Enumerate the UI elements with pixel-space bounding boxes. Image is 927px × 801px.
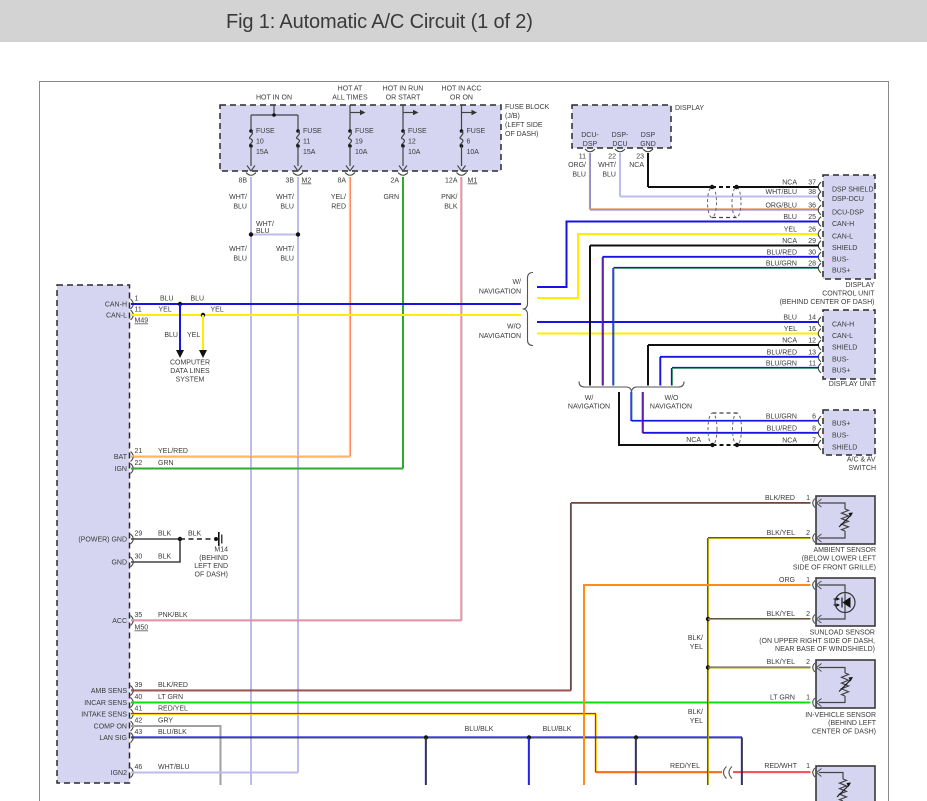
svg-text:NCA: NCA (782, 438, 797, 445)
svg-text:11: 11 (135, 307, 142, 314)
svg-text:8A: 8A (337, 178, 346, 185)
svg-text:HOT AT: HOT AT (338, 86, 363, 93)
svg-text:30: 30 (808, 250, 816, 257)
svg-text:BLK/YEL: BLK/YEL (767, 659, 796, 666)
svg-text:CAN-L: CAN-L (106, 313, 127, 320)
svg-text:BLK/: BLK/ (688, 709, 703, 716)
svg-text:37: 37 (808, 180, 816, 187)
svg-text:(J/B): (J/B) (505, 113, 520, 120)
svg-text:1: 1 (806, 695, 810, 702)
svg-text:11: 11 (303, 139, 310, 146)
svg-text:BUS-: BUS- (832, 433, 849, 440)
svg-text:ALL TIMES: ALL TIMES (332, 95, 368, 102)
svg-text:WHT/: WHT/ (256, 221, 274, 228)
svg-text:YEL: YEL (784, 227, 797, 234)
svg-text:22: 22 (608, 154, 616, 161)
svg-text:10: 10 (256, 139, 264, 146)
svg-text:BLU: BLU (164, 332, 178, 339)
svg-text:AMBIENT SENSOR: AMBIENT SENSOR (814, 547, 877, 554)
svg-text:RED/WHT: RED/WHT (764, 763, 797, 770)
svg-text:(ON UPPER RIGHT SIDE OF DASH,: (ON UPPER RIGHT SIDE OF DASH, (759, 638, 875, 645)
svg-text:(LEFT SIDE: (LEFT SIDE (505, 122, 543, 129)
svg-text:OF DASH): OF DASH) (505, 131, 538, 138)
svg-text:DISPLAY: DISPLAY (675, 105, 704, 112)
svg-text:NAVIGATION: NAVIGATION (479, 333, 521, 340)
svg-text:13: 13 (808, 350, 816, 357)
svg-text:DSP SHIELD: DSP SHIELD (832, 187, 874, 194)
svg-text:WHT/: WHT/ (229, 194, 247, 201)
svg-text:YEL: YEL (187, 332, 200, 339)
svg-text:ORG: ORG (779, 577, 795, 584)
svg-text:FUSE: FUSE (303, 128, 322, 135)
svg-text:16: 16 (808, 326, 816, 333)
svg-text:6: 6 (467, 139, 471, 146)
svg-text:GND: GND (111, 560, 127, 567)
svg-text:BLU: BLU (602, 172, 616, 179)
svg-text:YEL: YEL (159, 307, 172, 314)
svg-text:BUS-: BUS- (832, 257, 849, 264)
svg-text:IN-VEHICLE SENSOR: IN-VEHICLE SENSOR (805, 712, 876, 719)
svg-text:SWITCH: SWITCH (848, 465, 876, 472)
svg-text:38: 38 (808, 189, 816, 196)
svg-text:FUSE: FUSE (355, 128, 374, 135)
svg-text:(BEHIND LEFT: (BEHIND LEFT (828, 720, 877, 727)
svg-text:35: 35 (135, 612, 143, 619)
svg-text:BUS+: BUS+ (832, 421, 850, 428)
svg-text:BLK/RED: BLK/RED (158, 682, 188, 689)
svg-text:26: 26 (808, 227, 816, 234)
svg-text:M2: M2 (302, 178, 312, 185)
svg-text:BLU: BLU (233, 204, 247, 211)
svg-text:DSP-DCU: DSP-DCU (832, 196, 864, 203)
svg-text:14: 14 (808, 315, 816, 322)
svg-text:DCU-DSP: DCU-DSP (832, 210, 864, 217)
svg-text:FUSE: FUSE (408, 128, 427, 135)
svg-text:FUSE: FUSE (256, 128, 275, 135)
svg-text:RED: RED (331, 204, 346, 211)
svg-text:IGN: IGN (115, 466, 127, 473)
svg-text:DISPLAY: DISPLAY (845, 282, 874, 289)
svg-text:M14: M14 (214, 547, 228, 554)
svg-text:23: 23 (636, 154, 644, 161)
svg-text:BUS+: BUS+ (832, 268, 850, 275)
svg-text:BLK/RED: BLK/RED (765, 495, 795, 502)
svg-text:BLU: BLU (280, 204, 294, 211)
svg-text:NAVIGATION: NAVIGATION (568, 404, 610, 411)
svg-text:11: 11 (579, 154, 586, 161)
svg-text:WHT/: WHT/ (276, 194, 294, 201)
svg-text:BLU: BLU (572, 172, 586, 179)
svg-text:BLK: BLK (158, 531, 172, 538)
svg-text:GRN: GRN (383, 194, 399, 201)
svg-text:BLU/RED: BLU/RED (767, 250, 797, 257)
svg-text:BLU: BLU (783, 214, 797, 221)
svg-text:BLU/GRN: BLU/GRN (766, 361, 797, 368)
svg-text:NAVIGATION: NAVIGATION (479, 289, 521, 296)
svg-text:W/: W/ (585, 395, 594, 402)
svg-text:WHT/: WHT/ (276, 246, 294, 253)
svg-text:GND: GND (640, 141, 656, 148)
svg-text:30: 30 (135, 554, 143, 561)
svg-text:8: 8 (812, 426, 816, 433)
svg-text:10A: 10A (355, 149, 368, 156)
svg-text:SYSTEM: SYSTEM (176, 377, 205, 384)
svg-text:COMPUTER: COMPUTER (170, 360, 210, 367)
svg-text:2: 2 (806, 611, 810, 618)
svg-text:SIDE OF FRONT GRILLE): SIDE OF FRONT GRILLE) (793, 565, 876, 572)
svg-text:CAN-L: CAN-L (832, 333, 853, 340)
svg-text:M1: M1 (468, 178, 478, 185)
svg-text:15A: 15A (303, 149, 316, 156)
svg-text:HOT IN ON: HOT IN ON (256, 95, 292, 102)
svg-text:NCA: NCA (782, 338, 797, 345)
svg-text:19: 19 (355, 139, 363, 146)
svg-text:RED/YEL: RED/YEL (670, 763, 700, 770)
svg-text:YEL: YEL (211, 307, 224, 314)
svg-text:LEFT END: LEFT END (194, 563, 228, 570)
svg-text:BLU: BLU (783, 315, 797, 322)
svg-text:WHT/: WHT/ (229, 246, 247, 253)
svg-text:RED/YEL: RED/YEL (158, 706, 188, 713)
svg-text:1: 1 (135, 296, 139, 303)
svg-text:INCAR SENS: INCAR SENS (84, 700, 127, 707)
svg-text:BLK/YEL: BLK/YEL (767, 530, 796, 537)
svg-text:M50: M50 (135, 625, 149, 632)
svg-text:WHT/BLU: WHT/BLU (766, 189, 798, 196)
svg-text:BLU: BLU (160, 296, 174, 303)
svg-text:ORG/BLU: ORG/BLU (765, 203, 797, 210)
svg-text:YEL/RED: YEL/RED (158, 448, 188, 455)
svg-text:LT GRN: LT GRN (770, 695, 795, 702)
svg-text:21: 21 (135, 448, 143, 455)
svg-text:NCA: NCA (782, 238, 797, 245)
svg-text:BLK: BLK (158, 554, 172, 561)
svg-text:BLU: BLU (233, 256, 247, 263)
svg-text:BLU: BLU (280, 256, 294, 263)
svg-text:YEL: YEL (690, 718, 703, 725)
svg-text:SHIELD: SHIELD (832, 245, 857, 252)
svg-text:15A: 15A (256, 149, 269, 156)
svg-text:BLU/GRN: BLU/GRN (766, 261, 797, 268)
svg-text:INTAKE SENS: INTAKE SENS (81, 712, 127, 719)
svg-text:WHT/: WHT/ (598, 162, 616, 169)
svg-text:NCA: NCA (686, 437, 701, 444)
svg-text:FUSE BLOCK: FUSE BLOCK (505, 104, 550, 111)
svg-text:1: 1 (806, 495, 810, 502)
svg-text:10A: 10A (467, 149, 480, 156)
svg-text:40: 40 (135, 694, 143, 701)
svg-text:ACC: ACC (112, 618, 127, 625)
svg-text:OR START: OR START (386, 95, 421, 102)
svg-text:NEAR BASE OF WINDSHIELD): NEAR BASE OF WINDSHIELD) (775, 646, 875, 653)
svg-text:BLU/BLK: BLU/BLK (543, 726, 572, 733)
svg-text:BLU/RED: BLU/RED (767, 426, 797, 433)
svg-text:COMP ON: COMP ON (94, 724, 127, 731)
svg-text:DSP: DSP (583, 141, 598, 148)
svg-text:DSP: DSP (641, 132, 656, 139)
svg-text:BUS+: BUS+ (832, 368, 850, 375)
svg-text:HOT IN RUN: HOT IN RUN (383, 86, 424, 93)
svg-text:LAN SIG: LAN SIG (99, 735, 127, 742)
svg-text:YEL: YEL (784, 326, 797, 333)
svg-text:YEL: YEL (690, 644, 703, 651)
svg-text:39: 39 (135, 682, 143, 689)
svg-text:SUNLOAD SENSOR: SUNLOAD SENSOR (810, 630, 875, 637)
svg-text:CAN-H: CAN-H (832, 322, 854, 329)
svg-text:LT GRN: LT GRN (158, 694, 183, 701)
svg-text:BLU: BLU (256, 228, 270, 235)
svg-text:BLU: BLU (191, 296, 205, 303)
svg-text:DISPLAY UNIT: DISPLAY UNIT (829, 381, 877, 388)
svg-text:CAN-H: CAN-H (105, 302, 127, 309)
svg-text:1: 1 (806, 577, 810, 584)
svg-text:29: 29 (135, 531, 143, 538)
svg-text:BLU/GRN: BLU/GRN (766, 414, 797, 421)
svg-text:OR ON: OR ON (450, 95, 473, 102)
svg-text:43: 43 (135, 729, 143, 736)
svg-text:CAN-H: CAN-H (832, 221, 854, 228)
svg-text:6: 6 (812, 414, 816, 421)
svg-text:DCU-: DCU- (581, 132, 599, 139)
svg-text:PNK/: PNK/ (441, 194, 457, 201)
svg-text:BLU/RED: BLU/RED (767, 350, 797, 357)
svg-text:FUSE: FUSE (467, 128, 486, 135)
svg-text:CONTROL UNIT: CONTROL UNIT (822, 291, 875, 298)
svg-text:46: 46 (135, 764, 143, 771)
svg-text:M49: M49 (135, 318, 149, 325)
svg-text:W/O: W/O (507, 324, 522, 331)
svg-text:CAN-L: CAN-L (832, 234, 853, 241)
svg-text:BLK: BLK (188, 531, 202, 538)
svg-text:BLK: BLK (444, 204, 458, 211)
svg-text:DCU: DCU (612, 141, 627, 148)
svg-text:BLK/: BLK/ (688, 635, 703, 642)
svg-text:ORG/: ORG/ (568, 162, 586, 169)
svg-text:12: 12 (408, 139, 416, 146)
svg-text:(BEHIND CENTER OF DASH): (BEHIND CENTER OF DASH) (780, 299, 875, 306)
svg-text:SHIELD: SHIELD (832, 445, 857, 452)
svg-text:11: 11 (809, 361, 816, 368)
svg-text:NCA: NCA (629, 162, 644, 169)
svg-text:NCA: NCA (782, 180, 797, 187)
svg-text:29: 29 (808, 238, 816, 245)
svg-text:DATA LINES: DATA LINES (170, 368, 210, 375)
svg-text:(BELOW LOWER LEFT: (BELOW LOWER LEFT (802, 556, 877, 563)
svg-text:12A: 12A (445, 178, 458, 185)
svg-text:OF DASH): OF DASH) (195, 572, 228, 579)
svg-text:W/: W/ (512, 279, 521, 286)
svg-text:BLU/BLK: BLU/BLK (465, 726, 494, 733)
svg-text:(POWER) GND: (POWER) GND (78, 537, 127, 544)
svg-text:2A: 2A (390, 178, 399, 185)
svg-text:BAT: BAT (114, 454, 128, 461)
svg-text:3B: 3B (285, 178, 294, 185)
svg-text:10A: 10A (408, 149, 421, 156)
svg-text:PNK/BLK: PNK/BLK (158, 612, 188, 619)
svg-text:41: 41 (135, 706, 143, 713)
svg-text:2: 2 (806, 530, 810, 537)
svg-text:12: 12 (808, 338, 816, 345)
svg-text:2: 2 (806, 659, 810, 666)
svg-text:BLK/YEL: BLK/YEL (767, 611, 796, 618)
svg-text:CENTER OF DASH): CENTER OF DASH) (812, 729, 876, 736)
svg-text:DSP-: DSP- (612, 132, 629, 139)
svg-text:(BEHIND: (BEHIND (199, 555, 228, 562)
svg-text:36: 36 (808, 203, 816, 210)
svg-text:NAVIGATION: NAVIGATION (650, 404, 692, 411)
svg-text:IGN2: IGN2 (111, 770, 127, 777)
svg-text:AMB SENS: AMB SENS (91, 688, 128, 695)
svg-text:BUS-: BUS- (832, 357, 849, 364)
svg-text:HOT IN ACC: HOT IN ACC (442, 86, 482, 93)
svg-text:SHIELD: SHIELD (832, 345, 857, 352)
svg-text:8B: 8B (238, 178, 247, 185)
svg-text:1: 1 (806, 763, 810, 770)
svg-text:25: 25 (808, 214, 816, 221)
svg-text:WHT/BLU: WHT/BLU (158, 764, 190, 771)
svg-text:YEL/: YEL/ (331, 194, 346, 201)
svg-text:GRY: GRY (158, 718, 173, 725)
svg-text:W/O: W/O (665, 395, 680, 402)
svg-text:28: 28 (808, 261, 816, 268)
svg-text:Fig 1: Automatic A/C Circuit (: Fig 1: Automatic A/C Circuit (1 of 2) (226, 11, 533, 33)
svg-text:7: 7 (812, 438, 816, 445)
svg-text:22: 22 (135, 460, 143, 467)
svg-text:A/C & AV: A/C & AV (847, 457, 876, 464)
svg-text:BLU/BLK: BLU/BLK (158, 729, 187, 736)
svg-text:GRN: GRN (158, 460, 174, 467)
svg-text:42: 42 (135, 718, 143, 725)
